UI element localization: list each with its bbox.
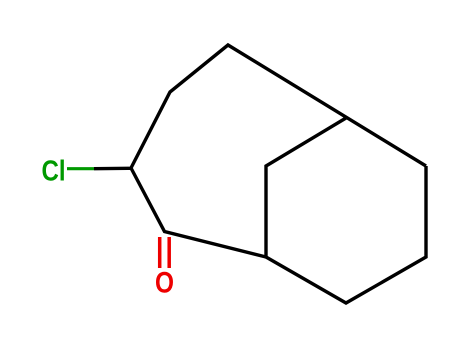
bond Cl-C1 green half xyxy=(67,167,94,170)
svg-text:O: O xyxy=(155,266,174,299)
double bond C=O line 2 xyxy=(167,237,171,268)
hexagon edges T-TL-BL-B-BR-TR xyxy=(266,118,426,303)
bonds C1-cC and cC-BL xyxy=(131,168,266,257)
chain C1-V1-apex-T-TR (bonds with miter corners) xyxy=(131,45,426,168)
double bond C=O line 1 xyxy=(158,237,162,268)
svg-text:Cl: Cl xyxy=(42,156,66,188)
bond Cl-C1 black half xyxy=(94,167,132,171)
